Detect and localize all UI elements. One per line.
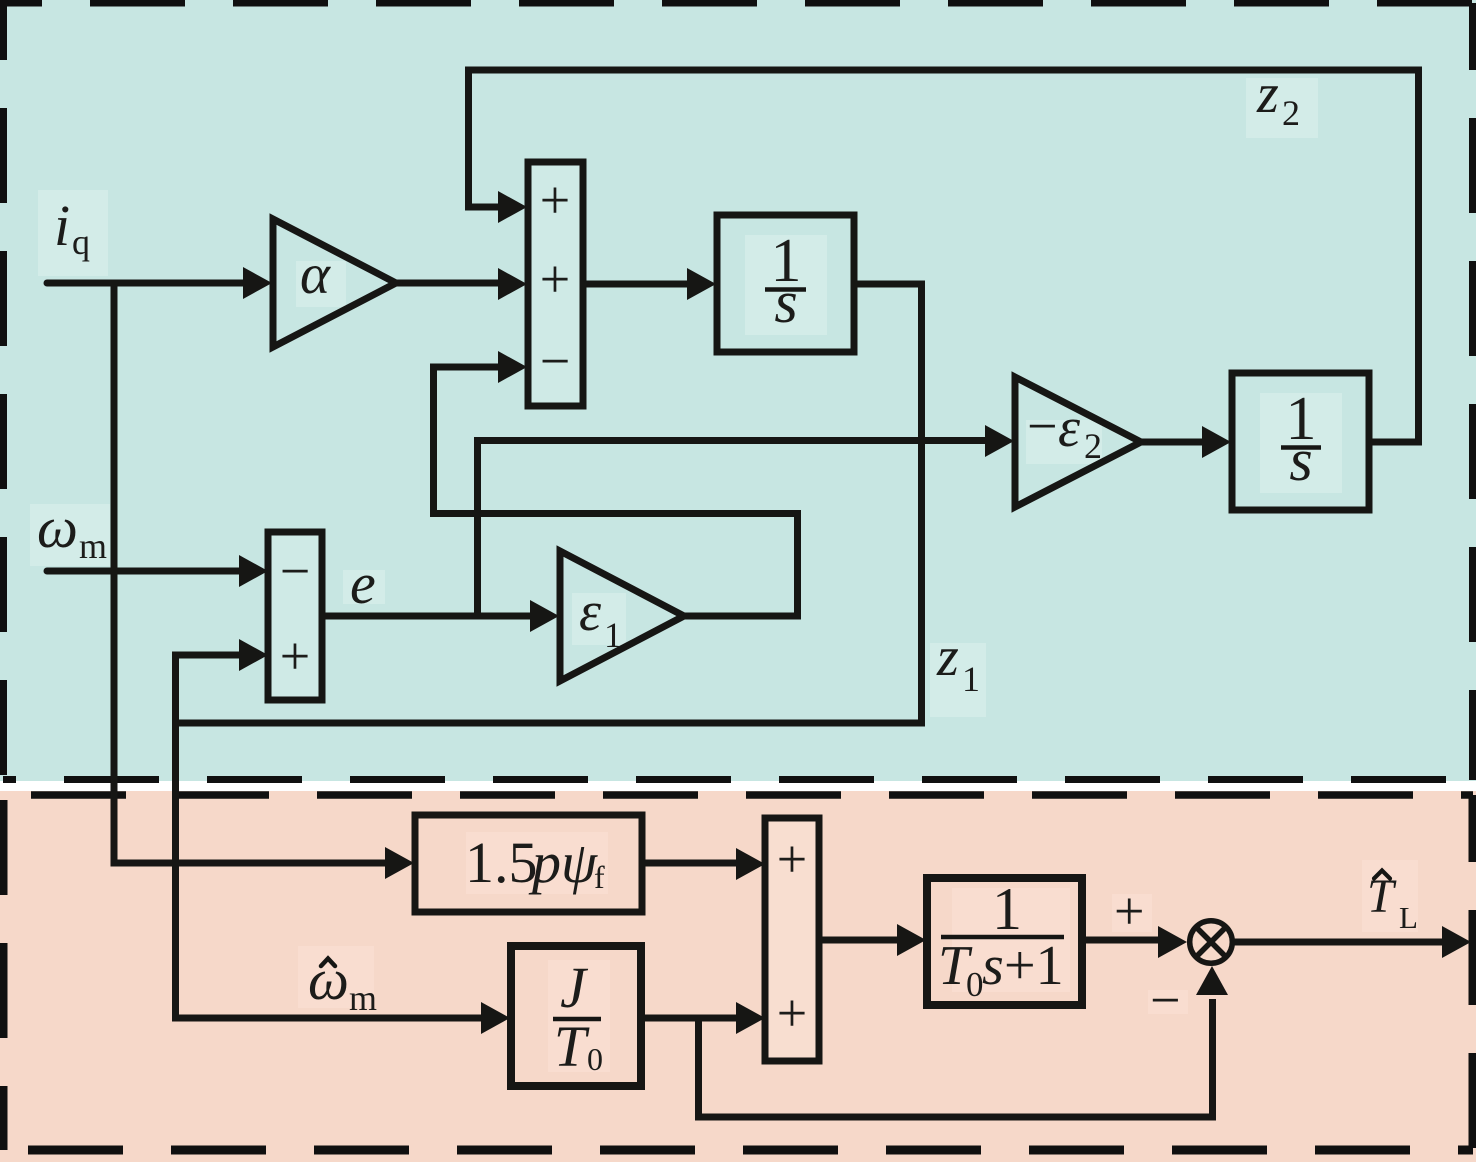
- integrator 1/s (first): [717, 215, 854, 352]
- svg-text:s: s: [774, 269, 797, 335]
- summing block (pink, + +): [765, 818, 819, 1061]
- gain alpha triangle: [273, 219, 396, 347]
- wire: 1.5p psi_f output to pink summer: [642, 860, 740, 867]
- arrow into summer top: [498, 191, 527, 223]
- svg-text:+: +: [540, 249, 570, 309]
- wire: feedback of J/T0 output to multiplier: [699, 999, 1213, 1117]
- svg-text:ω: ω: [37, 495, 78, 560]
- gain epsilon1 triangle: [560, 551, 684, 681]
- wire: J/T0 output to pink summer: [641, 1015, 740, 1022]
- wire: alpha output to summer: [396, 280, 501, 287]
- svg-text:m: m: [79, 526, 107, 566]
- wire: pink summer output: [819, 937, 900, 944]
- svg-text:−: −: [540, 331, 570, 391]
- wire: 1/s output down as z1: [176, 284, 922, 723]
- svg-text:0: 0: [587, 1041, 603, 1077]
- svg-text:+1: +1: [1004, 935, 1064, 997]
- svg-text:2: 2: [1282, 93, 1300, 133]
- svg-text:1: 1: [962, 659, 980, 699]
- wire: i_q input: [47, 280, 246, 287]
- gain block J/T0: [511, 946, 641, 1086]
- arrow into summer mid: [498, 268, 527, 300]
- svg-text:z: z: [1256, 63, 1279, 125]
- arrow into multiplier left: [1158, 926, 1187, 958]
- svg-text:J: J: [560, 955, 589, 1020]
- wire: omega_m input: [47, 568, 242, 575]
- arrow output T_L: [1442, 926, 1471, 958]
- svg-text:e: e: [350, 551, 376, 616]
- wire: z2 feedback top loop: [469, 70, 1419, 442]
- svg-text:+: +: [777, 983, 807, 1043]
- wire: -epsilon2 output to 1/s: [1141, 439, 1205, 446]
- svg-text:ε: ε: [579, 581, 602, 643]
- arrow into 1.5p psi_f: [385, 847, 414, 879]
- svg-text:+: +: [777, 829, 807, 889]
- arrow into -epsilon2: [985, 425, 1014, 457]
- arrow into J/T0: [481, 1002, 510, 1034]
- arrow into 1/(T0s+1): [897, 924, 926, 956]
- svg-text:pψ: pψ: [528, 830, 598, 895]
- wire: summer output to 1/s: [583, 281, 690, 288]
- arrow into error summer minus: [239, 555, 268, 587]
- svg-text:+: +: [1114, 881, 1144, 941]
- arrow into error summer plus: [239, 639, 268, 671]
- svg-text:f: f: [594, 859, 605, 895]
- svg-text:ε: ε: [1058, 397, 1081, 459]
- arrow into right 1/s: [1202, 426, 1231, 458]
- arrow into summer bottom: [498, 351, 527, 383]
- error summing block (- +): [268, 532, 322, 700]
- integrator 1/s (second): [1232, 373, 1369, 510]
- svg-text:T: T: [554, 1014, 590, 1079]
- wire: T_L output: [1230, 939, 1445, 946]
- arrow into pink summer bottom: [736, 1002, 765, 1034]
- svg-text:+: +: [280, 626, 310, 686]
- gain block 1.5p psi_f: [415, 815, 642, 912]
- wire: e output to epsilon1: [322, 613, 533, 620]
- arrow into epsilon1: [530, 600, 559, 632]
- wire: i_q branch down into pink region to 1.5p psi_f: [114, 283, 390, 863]
- svg-text:z: z: [936, 626, 959, 688]
- wire: z1 down to J/T0: [172, 1015, 486, 1022]
- svg-text:α: α: [300, 243, 331, 306]
- svg-text:−: −: [1150, 970, 1180, 1030]
- svg-text:s: s: [1289, 427, 1312, 493]
- teal region dashed border: [0, 3, 1476, 780]
- label patches: [30, 78, 1342, 717]
- wire: z1 up to error summer plus input: [176, 655, 243, 1018]
- svg-text:1: 1: [604, 615, 622, 655]
- svg-text:1.5: 1.5: [465, 830, 538, 895]
- summing block (top, + + -): [528, 162, 583, 406]
- region: load-torque observer background (pink): [0, 791, 1476, 1162]
- arrow into pink summer top: [736, 848, 765, 880]
- svg-text:2: 2: [1084, 426, 1102, 466]
- svg-text:T: T: [1367, 870, 1397, 923]
- multiplier circle with X: [1190, 921, 1233, 964]
- wire: 1/(T0s+1) output to multiplier: [1082, 937, 1160, 944]
- arrowheads: [239, 191, 1471, 1034]
- pink region dashed border: [3, 795, 1473, 1150]
- arrow into 1/s: [687, 268, 716, 300]
- wire: epsilon1 feedback to summer minus input: [434, 367, 798, 616]
- svg-text:−: −: [280, 541, 310, 601]
- svg-text:0: 0: [966, 965, 984, 1004]
- region: observer background (teal): [0, 0, 1476, 781]
- filter block 1/(T0 s+1): [927, 878, 1082, 1005]
- arrow into multiplier bottom: [1196, 966, 1228, 995]
- wire: e branch up to -epsilon2: [478, 441, 989, 614]
- svg-text:−: −: [1027, 396, 1057, 456]
- gain -epsilon2 triangle: [1015, 377, 1141, 507]
- svg-text:m: m: [349, 978, 377, 1018]
- svg-text:L: L: [1399, 900, 1418, 935]
- arrow into alpha: [243, 267, 272, 299]
- svg-text:q: q: [72, 222, 90, 262]
- svg-text:+: +: [540, 170, 570, 230]
- svg-text:s: s: [982, 935, 1004, 997]
- svg-text:1: 1: [992, 876, 1022, 942]
- svg-text:i: i: [54, 193, 70, 258]
